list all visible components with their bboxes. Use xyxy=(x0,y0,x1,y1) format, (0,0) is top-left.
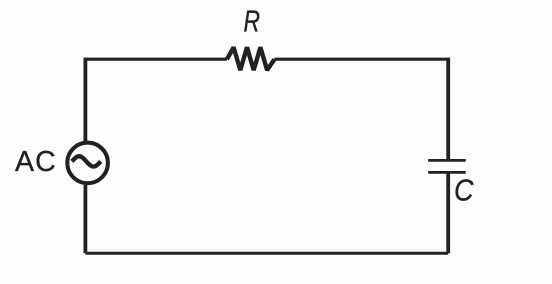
svg-text:R: R xyxy=(244,5,261,39)
svg-text:C: C xyxy=(454,173,474,208)
svg-text:AC: AC xyxy=(15,146,57,178)
